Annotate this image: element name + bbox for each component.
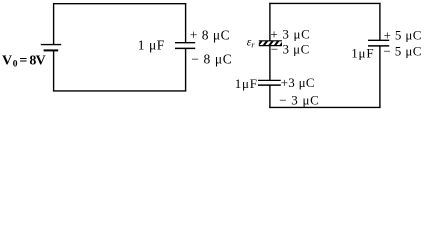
wire left-circuit bottom xyxy=(53,90,186,92)
svg-text:+ 3 μC: + 3 μC xyxy=(270,27,309,42)
svg-text:− 3 μC: − 3 μC xyxy=(279,92,319,107)
capacitor C-right bottom plate xyxy=(368,45,389,47)
svg-text:1μF: 1μF xyxy=(235,76,257,91)
battery V0 long plate xyxy=(41,44,61,46)
svg-text:+3 μC: +3 μC xyxy=(281,75,315,90)
wire right-circuit left-edge upper xyxy=(269,3,271,41)
wire right-circuit right-edge upper xyxy=(379,3,381,40)
capacitor C-bottom top plate xyxy=(258,79,281,81)
svg-text:+ 8 μC: + 8 μC xyxy=(190,28,230,43)
svg-text:= 8V: = 8V xyxy=(19,54,45,69)
wire right-circuit left-edge lower xyxy=(269,85,271,108)
svg-text:1 μF: 1 μF xyxy=(138,38,165,53)
wire left-circuit top xyxy=(53,3,186,5)
wire right-circuit right-edge lower xyxy=(379,46,381,108)
svg-text:εr: εr xyxy=(247,37,256,50)
svg-text:− 8 μC: − 8 μC xyxy=(191,52,232,67)
wire right-circuit left-edge middle xyxy=(269,46,271,81)
capacitor C-left top plate xyxy=(175,42,195,44)
svg-text:− 3 μC: − 3 μC xyxy=(271,42,309,57)
wire right-circuit top xyxy=(269,2,380,4)
svg-text:V: V xyxy=(2,54,12,69)
wire left-circuit left-edge lower xyxy=(53,50,55,91)
capacitor epsilon-r hatched dielectric slab xyxy=(256,40,286,47)
wire left-circuit right-edge lower xyxy=(185,48,187,91)
wire right-circuit bottom xyxy=(269,106,380,108)
wire left-circuit left-edge upper xyxy=(53,3,55,44)
svg-text:1μF: 1μF xyxy=(351,46,373,61)
svg-text:− 5 μC: − 5 μC xyxy=(383,44,421,59)
capacitor C-right top plate xyxy=(368,39,389,41)
svg-text:0: 0 xyxy=(13,60,18,70)
battery V0 short plate xyxy=(44,49,59,51)
svg-text:+ 5 μC: + 5 μC xyxy=(384,28,422,43)
capacitor C-left bottom plate xyxy=(175,47,195,49)
wire left-circuit right-edge upper xyxy=(185,3,187,43)
capacitor C-bottom bottom plate xyxy=(258,84,281,86)
